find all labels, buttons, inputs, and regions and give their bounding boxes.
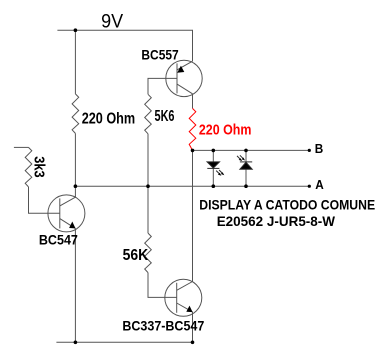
LED D2 arrows — [237, 155, 245, 161]
wire node B horizontal — [193, 149, 310, 151]
svg-text:B: B — [315, 141, 324, 156]
resistor R4 56K — [145, 233, 152, 273]
junction node on 9V rail — [74, 28, 78, 32]
transistor arrow BC547 emitter — [69, 222, 75, 229]
wire BC557 collector to red resistor — [192, 94, 194, 109]
LED D2 leads — [245, 150, 247, 162]
svg-text:BC547: BC547 — [39, 232, 78, 248]
terminal node A — [308, 185, 311, 188]
wire 56K to BC337 base — [148, 273, 177, 298]
junction bottom rail right — [191, 341, 195, 345]
LED D1 leads — [212, 150, 214, 162]
svg-text:3k3: 3k3 — [31, 156, 47, 177]
wire left branch upper — [74, 30, 76, 94]
wire top 9V rail — [57, 30, 192, 61]
wire BC337 emitter down — [192, 312, 194, 342]
junction node A left — [74, 184, 78, 188]
junction node A middle — [146, 184, 150, 188]
wire left branch lower — [74, 133, 76, 197]
wire BC547 emitter down — [74, 228, 76, 342]
junction bottom rail left — [74, 341, 78, 345]
svg-text:220 Ohm: 220 Ohm — [199, 122, 252, 139]
junction LED D1 top — [212, 149, 216, 153]
terminal node B — [308, 149, 311, 152]
transistor arrow BC557 emitter (PNP) — [177, 66, 184, 73]
svg-text:BC337-BC547: BC337-BC547 — [122, 317, 204, 333]
svg-text:E20562 J-UR5-8-W: E20562 J-UR5-8-W — [217, 213, 336, 229]
svg-text:BC557: BC557 — [141, 47, 178, 63]
junction node B left — [191, 149, 195, 153]
LED D2 body — [240, 162, 252, 169]
resistor R1 220 Ohm — [72, 94, 79, 133]
transistor Q1 BC547 — [48, 195, 85, 232]
svg-text:DISPLAY A CATODO COMUNE: DISPLAY A CATODO COMUNE — [199, 196, 375, 212]
resistor R2 3k3 — [25, 147, 32, 187]
transistor Q3 BC337-BC547 — [165, 279, 202, 316]
svg-text:A: A — [315, 177, 324, 192]
wire 3k3 input lead — [14, 146, 29, 148]
LED D1 body — [207, 162, 224, 176]
wire node B vertical to BC337 collector — [192, 150, 194, 281]
resistor R5 220 Ohm red — [189, 108, 196, 150]
junction LED D2 bottom — [244, 184, 248, 188]
junction LED D1 bottom — [212, 184, 216, 188]
wire 3k3 to BC547 base — [29, 187, 60, 213]
wire bottom rail — [56, 341, 192, 343]
wire 5K6 to node A — [147, 134, 149, 186]
svg-text:9V: 9V — [101, 11, 123, 32]
resistor R3 5K6 — [145, 94, 152, 134]
junction LED D2 top — [244, 149, 248, 153]
svg-text:56K: 56K — [123, 247, 149, 264]
transistor Q2 BC557 — [166, 60, 202, 96]
wire node A horizontal — [75, 185, 309, 187]
wire BC557 base lead — [148, 78, 177, 94]
wire node A to 56K — [147, 186, 149, 233]
svg-text:220 Ohm: 220 Ohm — [82, 110, 136, 127]
svg-text:5K6: 5K6 — [155, 108, 175, 125]
transistor arrow BC337 emitter — [186, 306, 192, 313]
